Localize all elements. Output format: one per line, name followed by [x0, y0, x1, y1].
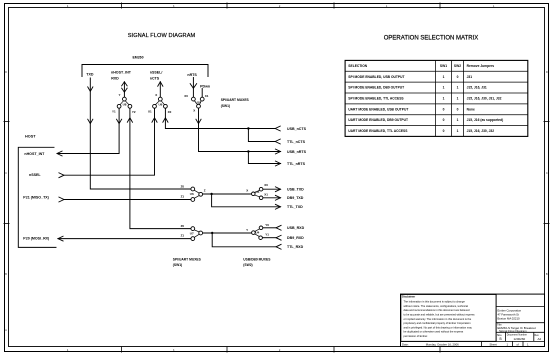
size / document / rev row — [497, 333, 542, 341]
wire TTL_TXD branch — [212, 194, 281, 207]
arrow nCTS up — [158, 82, 164, 87]
mux U10 — [192, 97, 205, 108]
arrow TTL_nRTS right — [275, 161, 281, 166]
svg-text:0: 0 — [443, 107, 445, 111]
svg-text:U4: U4 — [256, 230, 260, 234]
svg-text:Remove Jumpers: Remove Jumpers — [467, 64, 495, 68]
svg-text:0: 0 — [457, 75, 459, 79]
svg-text:1: 1 — [457, 129, 459, 133]
svg-text:USB_nCTS: USB_nCTS — [287, 127, 307, 131]
svg-text:TTL_nCTS: TTL_nCTS — [287, 140, 306, 144]
svg-text:USB/DB9 MUXES: USB/DB9 MUXES — [243, 257, 271, 261]
arrow X1 up — [152, 118, 158, 123]
svg-text:USB_RXD: USB_RXD — [287, 226, 305, 230]
wire nCTS branch — [248, 129, 275, 142]
arrow TXD down 2 — [88, 119, 94, 124]
svg-text:UART MODE ENABLED, TTL ACCESS: UART MODE ENABLED, TTL ACCESS — [348, 129, 408, 133]
svg-text:B: B — [5, 274, 7, 276]
svg-text:nHOST_INT: nHOST_INT — [24, 152, 45, 156]
svg-text:U5: U5 — [256, 190, 260, 194]
svg-text:J15, J16, J30, J32: J15, J16, J30, J32 — [467, 129, 495, 133]
svg-text:C: C — [5, 173, 7, 175]
arrow DB9_TXD right — [275, 195, 281, 200]
arrow TTL_nCTS left — [275, 139, 281, 144]
svg-text:Z1: Z1 — [181, 234, 185, 238]
svg-text:Sheet: Sheet — [490, 342, 498, 346]
svg-text:SPI/UART MUXES: SPI/UART MUXES — [173, 257, 202, 261]
svg-text:OPERATION SELECTION MATRIX: OPERATION SELECTION MATRIX — [384, 36, 478, 42]
svg-text:(SW2): (SW2) — [243, 263, 252, 267]
svg-text:RXD: RXD — [111, 76, 119, 80]
disclaimer text — [402, 295, 475, 338]
junction nCTS — [247, 127, 249, 129]
arrow USB_RXD left — [276, 225, 282, 230]
svg-text:be duplicated or otherwise use: be duplicated or otherwise used without … — [404, 330, 464, 334]
wire TTL_RXD branch — [212, 233, 276, 247]
svg-text:X0: X0 — [264, 183, 268, 187]
svg-text:1: 1 — [457, 118, 459, 122]
svg-text:Z0: Z0 — [181, 184, 185, 188]
svg-text:(SW1): (SW1) — [173, 263, 182, 267]
svg-text:DB9_TXD: DB9_TXD — [287, 196, 304, 200]
svg-text:X: X — [246, 189, 248, 193]
arrow TXD down 1 — [88, 87, 94, 92]
svg-text:0: 0 — [443, 129, 445, 133]
wire RXD stem to U8 pole — [123, 82, 125, 97]
svg-text:Y0: Y0 — [265, 223, 269, 227]
wire U5 X1 to DB9_TXD — [263, 197, 281, 199]
wire U6 pole to U5 pole — [203, 193, 252, 195]
svg-text:X1: X1 — [148, 110, 152, 114]
svg-text:Z: Z — [204, 189, 206, 193]
svg-text:nSSEL/: nSSEL/ — [150, 70, 163, 74]
arrowheads — [57, 82, 282, 250]
wire U10 pole to USB_nRTS / TTL_nRTS — [199, 108, 281, 151]
svg-text:J15, J16, J31: J15, J16, J31 — [467, 86, 487, 90]
svg-text:B: B — [500, 337, 502, 341]
svg-text:J31: J31 — [467, 75, 473, 79]
arrow U10 pole down — [196, 119, 202, 124]
svg-text:1: 1 — [443, 75, 445, 79]
table OPERATION SELECTION MATRIX — [345, 60, 528, 136]
junction RXD TTL — [211, 232, 213, 234]
mux U7 — [191, 227, 203, 241]
svg-text:TTL_TXD: TTL_TXD — [287, 205, 303, 209]
svg-text:P21 (MISO_TX): P21 (MISO_TX) — [23, 196, 49, 200]
svg-text:X: X — [193, 108, 195, 112]
svg-text:X0: X0 — [168, 110, 172, 114]
svg-text:1: 1 — [507, 342, 509, 346]
junction nRTS — [247, 150, 249, 152]
svg-text:1: 1 — [443, 86, 445, 90]
wire host nSSEL to U9 X1 — [64, 108, 155, 175]
svg-text:DB9_RXD: DB9_RXD — [287, 236, 304, 240]
svg-text:B: B — [546, 274, 548, 276]
svg-text:1: 1 — [443, 97, 445, 101]
wire PDwn stem to U10 throw X1 — [201, 89, 203, 98]
arrow nSSEL right — [59, 173, 65, 178]
arrow TTL_RXD left — [276, 244, 282, 249]
svg-text:1200260: 1200260 — [514, 337, 526, 341]
svg-text:USB_nRTS: USB_nRTS — [287, 150, 307, 154]
svg-text:and is privileged. No part of: and is privileged. No part of this drawi… — [404, 325, 473, 329]
svg-text:U6: U6 — [190, 192, 194, 196]
svg-text:nCTS: nCTS — [150, 76, 160, 80]
arrow USB_nCTS left — [275, 126, 281, 131]
svg-text:X: X — [155, 93, 157, 97]
svg-text:1: 1 — [457, 86, 459, 90]
svg-text:The information in this docume: The information in this document is subj… — [404, 300, 466, 304]
wire TXD vertical then to Z0 of U6 — [90, 78, 191, 189]
svg-text:permission of Ember.: permission of Ember. — [404, 334, 429, 338]
svg-text:Y: Y — [246, 228, 248, 232]
svg-text:UART MODE ENABLED, USB OUTPUT: UART MODE ENABLED, USB OUTPUT — [348, 107, 408, 111]
wire nRTS stem to U10 throw X0 — [192, 78, 194, 98]
svg-text:or implied warranty. The info: or implied warranty. The information in … — [404, 317, 472, 321]
wire host P21 to U6 Z1 — [64, 199, 191, 201]
svg-text:USB_TXD: USB_TXD — [287, 188, 304, 192]
svg-text:A2: A2 — [538, 337, 542, 341]
wire U8 Y2 down to Z0 of U7 — [130, 108, 191, 228]
svg-text:to be accurate and reliable, b: to be accurate and reliable, but are pre… — [404, 313, 476, 317]
svg-text:TTL_nRTS: TTL_nRTS — [287, 162, 306, 166]
svg-text:X1: X1 — [264, 193, 268, 197]
title block — [401, 294, 545, 346]
svg-text:TXD: TXD — [86, 73, 94, 77]
HOST box — [18, 147, 56, 247]
svg-text:nRTS: nRTS — [187, 73, 197, 77]
wire U7 pole to U4 pole — [203, 232, 252, 234]
svg-text:SW1: SW1 — [440, 64, 447, 68]
wire U4 Y0 to USB_RXD — [263, 227, 276, 229]
svg-text:nHOST_INT: nHOST_INT — [111, 70, 132, 74]
svg-text:Y: Y — [119, 93, 121, 97]
svg-text:SPI MODE ENABLED, DB9 OUTPUT: SPI MODE ENABLED, DB9 OUTPUT — [348, 86, 404, 90]
wire host P20 to U7 Z1 — [58, 238, 191, 240]
svg-text:(SW1): (SW1) — [221, 104, 230, 108]
svg-text:Document Number: Document Number — [507, 333, 527, 336]
svg-text:X1: X1 — [205, 94, 209, 98]
svg-text:0: 0 — [457, 107, 459, 111]
svg-text:U7: U7 — [190, 232, 194, 236]
svg-text:nSSEL: nSSEL — [29, 173, 41, 177]
svg-text:Boston MA 02210: Boston MA 02210 — [498, 317, 521, 321]
svg-text:Y1: Y1 — [112, 110, 116, 114]
mux U5 — [252, 187, 263, 199]
wire U5 X0 to USB_TXD — [263, 188, 281, 190]
svg-text:PDwn: PDwn — [200, 84, 210, 88]
svg-text:SPI/UART MUXES: SPI/UART MUXES — [221, 98, 250, 102]
svg-text:TTL_RXD: TTL_RXD — [287, 245, 304, 249]
arrow P21 right — [59, 197, 65, 202]
arrow DB9_RXD left — [276, 235, 282, 240]
arrow TTL_TXD right — [275, 204, 281, 209]
svg-text:U9: U9 — [159, 102, 163, 106]
svg-text:0: 0 — [443, 118, 445, 122]
mux U4 — [252, 226, 263, 240]
mux U9 — [153, 97, 168, 108]
svg-text:D: D — [546, 72, 548, 74]
wire nRTS branch — [248, 152, 280, 164]
wire U4 Y1 to DB9_RXD — [263, 237, 276, 239]
arrow RXD up — [121, 82, 127, 86]
svg-text:UART MODE ENABLED, DB9 OUTPUT: UART MODE ENABLED, DB9 OUTPUT — [348, 118, 408, 122]
svg-text:J15, J16 (as supported): J15, J16 (as supported) — [467, 118, 504, 122]
svg-text:SPI MODE ENABLED, TTL ACCESS: SPI MODE ENABLED, TTL ACCESS — [348, 97, 404, 101]
mux U8 — [117, 97, 132, 108]
svg-text:proprietary and confidential p: proprietary and confidential property of… — [404, 321, 472, 325]
svg-text:HOST: HOST — [25, 134, 36, 138]
mux U6 — [191, 187, 203, 201]
svg-text:C: C — [546, 173, 548, 175]
svg-text:Y1: Y1 — [265, 233, 269, 237]
svg-text:D: D — [5, 72, 7, 74]
svg-text:U8: U8 — [123, 102, 127, 106]
svg-text:Date:: Date: — [402, 342, 409, 346]
arrow RXD down — [121, 88, 127, 92]
date / sheet row — [402, 342, 529, 346]
svg-text:Y2: Y2 — [132, 110, 136, 114]
arrow USB_TXD right — [275, 187, 281, 192]
svg-text:U10: U10 — [195, 100, 201, 104]
svg-text:of: of — [517, 342, 520, 346]
svg-text:without notice. The statement: without notice. The statements, configur… — [404, 304, 469, 308]
svg-text:1: 1 — [527, 342, 529, 346]
arrow nHOST_INT left — [57, 151, 63, 156]
arrow Y2 up — [127, 118, 133, 123]
arrow X0 up — [163, 118, 169, 123]
arrow USB_nRTS right — [275, 149, 281, 154]
svg-text:A: A — [5, 329, 7, 332]
svg-text:P20 (MOSI_RX): P20 (MOSI_RX) — [23, 237, 50, 241]
svg-text:SELECTION: SELECTION — [348, 64, 367, 68]
svg-text:X0: X0 — [184, 94, 188, 98]
schematic texts — [23, 56, 210, 241]
wire nCTS stem to U9 pole — [159, 82, 161, 97]
company address — [498, 309, 522, 321]
svg-text:1: 1 — [457, 97, 459, 101]
wire U8 Y1 to host nHOST_INT — [58, 108, 119, 153]
svg-text:data and recommendations in th: data and recommendations in this documen… — [404, 308, 470, 312]
arrow P20 left — [58, 236, 64, 241]
svg-text:SW2: SW2 — [454, 64, 461, 68]
svg-text:Z0: Z0 — [181, 224, 185, 228]
svg-text:J15, J16, J30, J31, J32: J15, J16, J30, J31, J32 — [467, 97, 502, 101]
EM260 bracket — [82, 65, 208, 77]
svg-text:EM260: EM260 — [132, 56, 143, 60]
svg-text:Z1: Z1 — [181, 195, 185, 199]
svg-text:Disclaimer: Disclaimer — [402, 295, 415, 299]
arrow Y1 down — [116, 119, 122, 124]
title field — [497, 323, 536, 333]
svg-text:None: None — [467, 107, 475, 111]
svg-text:Monday, October 16, 2006: Monday, October 16, 2006 — [426, 342, 459, 346]
svg-text:SPI MODE ENABLED, USB OUTPUT: SPI MODE ENABLED, USB OUTPUT — [348, 75, 404, 79]
junction TXD TTL — [210, 193, 212, 195]
svg-text:SIGNAL FLOW DIAGRAM: SIGNAL FLOW DIAGRAM — [128, 33, 196, 39]
arrow nRTS down — [190, 83, 197, 88]
wire U9 X0 to USB_nCTS / TTL_nCTS — [165, 108, 275, 128]
